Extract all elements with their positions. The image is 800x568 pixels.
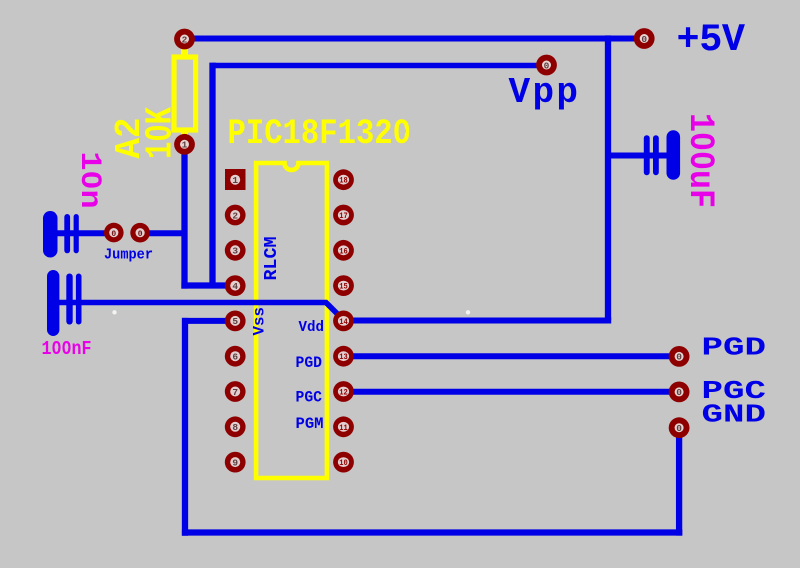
svg-text:10K: 10K	[140, 107, 183, 159]
IC pin 18	[333, 169, 354, 190]
svg-text:0: 0	[676, 352, 682, 363]
wire jumper right to MCLR net	[140, 230, 187, 236]
pad GND	[669, 417, 690, 438]
svg-text:0: 0	[676, 423, 682, 434]
wire +5V trunk vertical	[605, 35, 611, 320]
svg-text:3: 3	[232, 246, 238, 257]
pad R1.2	[174, 29, 195, 50]
svg-text:Vdd: Vdd	[299, 319, 325, 336]
pad R1.1	[174, 134, 195, 155]
svg-text:0: 0	[676, 387, 682, 398]
IC pin 16	[333, 240, 354, 261]
svg-text:8: 8	[232, 422, 238, 433]
IC pin 11	[333, 416, 354, 437]
svg-text:17: 17	[339, 212, 348, 221]
wire Vdd horizontal trunk to pin14	[344, 318, 611, 324]
IC pin 10	[333, 452, 354, 473]
svg-text:PGM: PGM	[296, 415, 324, 433]
IC pin 3	[225, 240, 246, 261]
wire Vss trunk vertical	[182, 318, 188, 536]
svg-text:12: 12	[339, 389, 348, 398]
wire R1 pad1 down	[181, 144, 187, 289]
svg-text:0: 0	[641, 34, 647, 45]
svg-text:RLCM: RLCM	[262, 237, 282, 281]
wire C2 100nF to pin14 with diagonal	[53, 303, 344, 321]
svg-text:0: 0	[138, 230, 143, 239]
svg-text:16: 16	[339, 247, 348, 256]
IC pin 5	[225, 311, 246, 332]
pad PGD	[669, 346, 690, 367]
svg-text:0: 0	[544, 60, 550, 71]
IC pin 15	[333, 275, 354, 296]
svg-text:Jumper: Jumper	[104, 248, 153, 264]
IC pin 9	[225, 452, 246, 473]
svg-text:2: 2	[232, 210, 238, 221]
svg-text:GND: GND	[702, 400, 767, 429]
capacitor C2 100nF (left bottom)	[47, 270, 82, 336]
svg-text:4: 4	[232, 281, 238, 292]
IC pin 6	[225, 346, 246, 367]
wire Vpp vertical	[209, 63, 215, 286]
wire PGC	[344, 389, 679, 395]
IC pin 14	[333, 311, 354, 332]
svg-text:10: 10	[339, 459, 348, 468]
IC pin 13	[333, 346, 354, 367]
zero counter cover 100nF a	[55, 346, 59, 349]
pad Vpp	[536, 55, 557, 76]
zero counter cover 10n	[89, 178, 95, 183]
capacitor C1 10n (left top)	[43, 211, 79, 258]
wire GND bottom horizontal	[182, 529, 682, 535]
capacitor C3 100uF (right)	[644, 130, 680, 180]
white speck right	[466, 310, 470, 314]
svg-text:PGD: PGD	[296, 354, 323, 372]
IC pin 7	[225, 381, 246, 402]
svg-text:2: 2	[182, 34, 188, 45]
IC pin 17	[333, 205, 354, 226]
svg-text:18: 18	[339, 177, 348, 186]
svg-text:1: 1	[182, 140, 188, 151]
svg-text:7: 7	[232, 387, 238, 398]
zero counter cover 100nF b	[65, 346, 69, 349]
svg-text:+5V: +5V	[677, 18, 746, 62]
wire Vpp horizontal	[213, 63, 547, 69]
wire jumper left	[50, 230, 114, 236]
zero counter cover PIC18F1320	[400, 128, 406, 135]
svg-text:13: 13	[339, 353, 348, 362]
white speck left	[112, 310, 116, 314]
pad +5V	[634, 28, 655, 49]
IC pin 12	[333, 381, 354, 402]
svg-text:Vss: Vss	[251, 307, 269, 336]
svg-text:PGD: PGD	[702, 333, 767, 363]
svg-text:11: 11	[339, 424, 348, 433]
svg-text:1: 1	[232, 175, 238, 186]
svg-text:6: 6	[232, 352, 238, 363]
wire stub to C3 100uF	[608, 153, 667, 159]
zero counter cover 10K	[154, 130, 161, 136]
wire +5V horizontal from R1 pad2 to +5V pad	[185, 36, 645, 42]
svg-text:10n: 10n	[72, 152, 106, 209]
svg-text:14: 14	[339, 318, 348, 327]
svg-text:5: 5	[232, 316, 238, 327]
svg-text:PGC: PGC	[296, 389, 323, 407]
pad jumper A	[104, 223, 124, 243]
IC pin 8	[225, 416, 246, 437]
svg-text:0: 0	[111, 230, 116, 239]
wire PGD	[344, 353, 679, 359]
zero counter cover 100uF a	[700, 139, 706, 144]
wire MCLR horizontal to pin4	[181, 282, 236, 288]
wire GND pad vertical	[676, 428, 682, 536]
IC U1 PIC18F1320 body outline with pin-1 notch	[256, 163, 327, 478]
svg-text:Vpp: Vpp	[509, 72, 579, 113]
wire Vss pin5 horizontal	[182, 318, 236, 324]
IC pin 4	[225, 275, 246, 296]
pad jumper B	[130, 223, 150, 243]
zero counter cover 100uF b	[700, 158, 706, 163]
IC pin 1 (square)	[225, 169, 246, 190]
svg-text:9: 9	[232, 457, 238, 468]
svg-text:15: 15	[339, 283, 348, 292]
resistor R1 (10K) body	[174, 39, 196, 145]
IC pin 2	[225, 205, 246, 226]
svg-text:PIC18F1320: PIC18F1320	[228, 114, 412, 154]
svg-text:100nF: 100nF	[42, 338, 92, 360]
pad PGC	[669, 382, 690, 403]
